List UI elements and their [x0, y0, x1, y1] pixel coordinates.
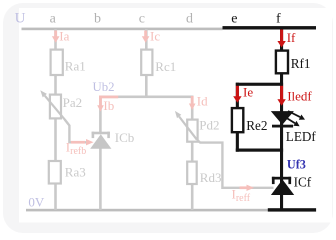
- svg-text:Rc1: Rc1: [155, 59, 176, 74]
- svg-text:Pa2: Pa2: [63, 95, 83, 110]
- svg-text:e: e: [231, 12, 237, 27]
- svg-text:LEDf: LEDf: [286, 129, 317, 144]
- svg-text:Rf1: Rf1: [291, 56, 311, 71]
- svg-text:Rd3: Rd3: [200, 170, 222, 185]
- svg-text:U: U: [15, 10, 26, 26]
- svg-text:d: d: [186, 12, 193, 27]
- svg-text:f: f: [276, 12, 281, 27]
- svg-text:ICf: ICf: [294, 174, 312, 189]
- svg-text:Uf3: Uf3: [287, 158, 306, 172]
- svg-text:Iledf: Iledf: [287, 89, 312, 104]
- svg-text:Ic: Ic: [150, 29, 160, 44]
- svg-text:0V: 0V: [28, 194, 45, 209]
- svg-text:Id: Id: [197, 93, 208, 108]
- svg-text:Ib: Ib: [103, 98, 114, 113]
- svg-text:If: If: [287, 30, 296, 45]
- svg-text:ICb: ICb: [115, 130, 135, 145]
- svg-text:Ra1: Ra1: [65, 59, 86, 74]
- svg-text:b: b: [94, 12, 101, 27]
- svg-text:Re2: Re2: [246, 118, 267, 133]
- svg-text:Ia: Ia: [59, 29, 69, 44]
- svg-text:Ub2: Ub2: [93, 80, 115, 94]
- svg-text:Pd2: Pd2: [199, 118, 219, 133]
- svg-text:Ie: Ie: [243, 85, 253, 100]
- svg-text:a: a: [50, 12, 57, 27]
- svg-text:c: c: [139, 12, 145, 27]
- svg-text:Ra3: Ra3: [65, 165, 86, 180]
